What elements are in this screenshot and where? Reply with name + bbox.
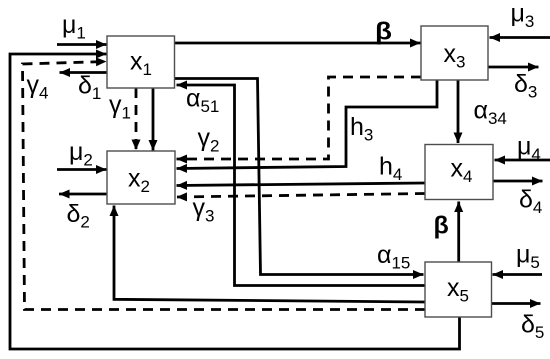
- svg-text:β: β: [375, 18, 392, 46]
- svg-text:α15: α15: [377, 241, 410, 273]
- svg-text:γ4: γ4: [27, 71, 49, 103]
- svg-text:μ1: μ1: [62, 11, 86, 43]
- svg-text:δ4: δ4: [519, 185, 542, 217]
- svg-text:α51: α51: [186, 85, 219, 117]
- svg-text:μ3: μ3: [511, 0, 535, 31]
- svg-text:γ1: γ1: [109, 91, 131, 123]
- svg-text:γ2: γ2: [198, 124, 220, 156]
- svg-text:δ3: δ3: [514, 70, 537, 102]
- svg-text:δ5: δ5: [521, 310, 544, 342]
- svg-text:δ2: δ2: [67, 200, 90, 232]
- svg-text:δ1: δ1: [78, 72, 101, 104]
- svg-text:h3: h3: [350, 113, 373, 145]
- svg-text:μ5: μ5: [516, 240, 540, 272]
- svg-text:μ4: μ4: [517, 132, 541, 164]
- svg-text:μ2: μ2: [69, 138, 93, 170]
- svg-text:α34: α34: [474, 97, 507, 129]
- svg-text:h4: h4: [379, 153, 402, 185]
- svg-text:β: β: [434, 211, 449, 239]
- svg-text:γ3: γ3: [193, 194, 215, 226]
